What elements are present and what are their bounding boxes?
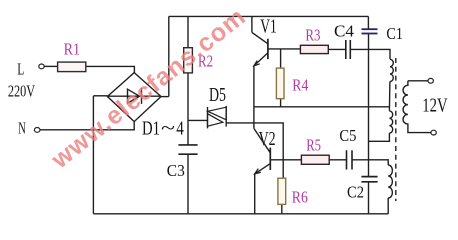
wire bridge right corner link: [161, 96, 169, 98]
diac D5: [188, 119, 208, 121]
resistor R2: [184, 48, 193, 73]
svg-text:C3: C3: [167, 161, 185, 180]
wire L to R1: [44, 65, 57, 67]
wire C1 to C2 mid vertical: [368, 34, 370, 177]
wire R5 to C5: [329, 159, 346, 161]
svg-text:L: L: [17, 60, 24, 79]
wire top rail left drop to bridge right corner: [168, 16, 170, 96]
resistor R6 leads: [282, 160, 284, 178]
wire below C2 to bottom rail: [368, 182, 370, 214]
svg-text:D5: D5: [209, 85, 226, 106]
wire bottom rail: [93, 213, 388, 215]
node L terminal: [39, 64, 44, 69]
transformer primary winding bottom: [389, 111, 392, 133]
resistor R1: [58, 62, 86, 72]
svg-text:12V: 12V: [422, 95, 447, 116]
transformer feedback winding: [388, 165, 392, 198]
svg-text:C4: C4: [334, 22, 354, 41]
svg-text:R4: R4: [292, 75, 308, 94]
diode inside bridge: [107, 95, 161, 97]
svg-text:C5: C5: [339, 126, 356, 145]
resistor R3: [300, 45, 328, 53]
resistor R2 leads: [187, 16, 189, 47]
resistor R5: [301, 155, 329, 164]
svg-text:V2: V2: [259, 129, 276, 150]
svg-text:R5: R5: [306, 136, 321, 155]
resistor R6: [278, 178, 286, 204]
svg-text:N: N: [18, 119, 26, 138]
capacitor C1: [362, 29, 378, 33]
transformer primary winding top: [390, 59, 393, 81]
svg-text:C2: C2: [347, 183, 364, 202]
resistor R4 leads: [280, 49, 282, 68]
diode bridge D1~4 diamond: [107, 73, 161, 122]
capacitor C3: [178, 144, 197, 146]
svg-text:C1: C1: [386, 24, 403, 43]
node N terminal: [34, 127, 40, 132]
transistor V2: [254, 128, 270, 152]
svg-text:4: 4: [176, 118, 184, 139]
wire bridge left corner link: [93, 95, 107, 97]
wire N to bridge bottom: [40, 122, 134, 130]
node 12V bottom terminal: [431, 130, 436, 135]
wire R3 to C4: [328, 48, 345, 50]
wire top rail: [169, 15, 369, 17]
svg-text:R6: R6: [292, 187, 308, 206]
wire top rail right drop to C1: [367, 16, 369, 29]
resistor R4: [276, 68, 284, 99]
svg-text:V1: V1: [260, 16, 277, 37]
svg-text:~: ~: [161, 118, 175, 139]
svg-text:R1: R1: [64, 40, 80, 59]
wire R1 to bridge top: [86, 66, 135, 72]
capacitor C5: [346, 150, 348, 169]
node 12V top terminal: [428, 78, 433, 83]
wire center tap: [254, 106, 390, 108]
transistor V1: [251, 16, 253, 32]
transformer core: [395, 58, 397, 201]
svg-text:D1: D1: [142, 118, 160, 139]
capacitor C2: [361, 176, 377, 178]
svg-text:R3: R3: [305, 25, 320, 44]
wire left rail (bridge minus to bottom): [92, 96, 94, 214]
svg-text:220V: 220V: [8, 82, 36, 101]
capacitor C4: [345, 40, 347, 59]
transformer secondary winding: [408, 80, 428, 82]
